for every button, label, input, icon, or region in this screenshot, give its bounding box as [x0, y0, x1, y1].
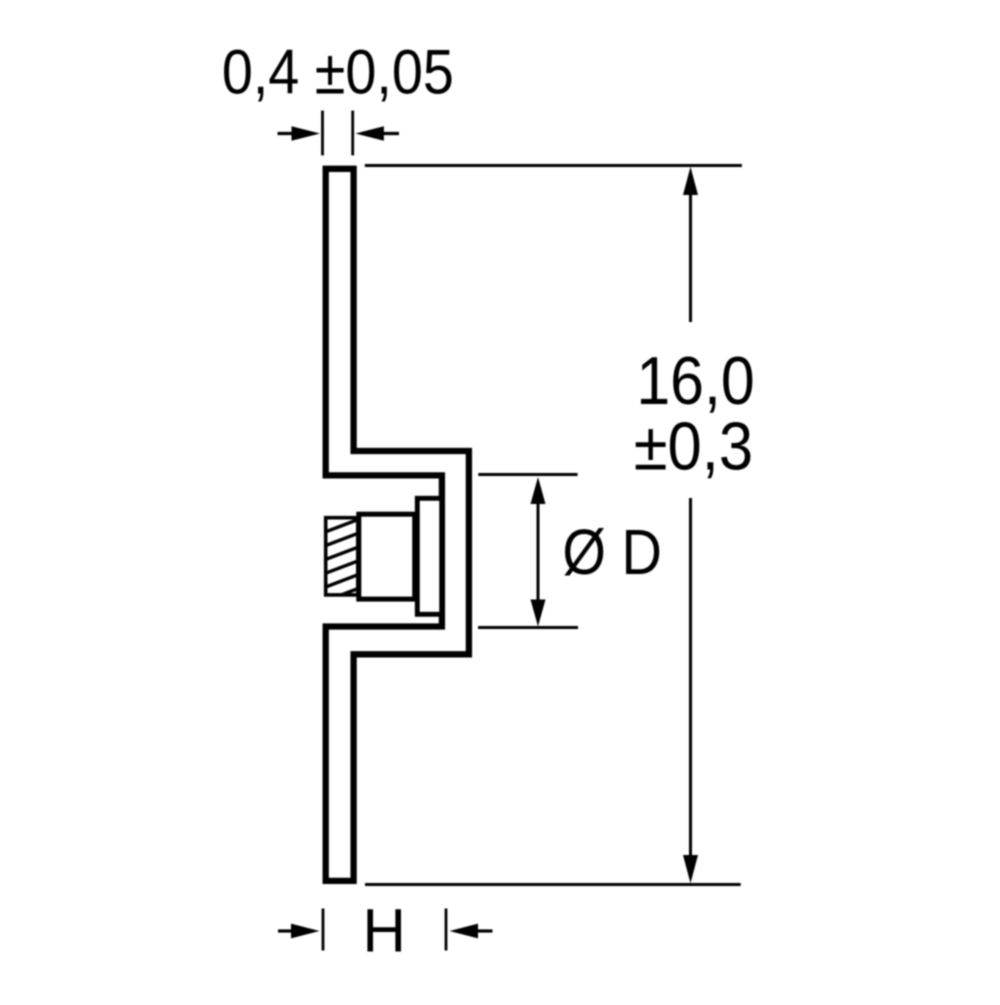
svg-text:H: H — [362, 896, 405, 965]
dimension 16,0 : bottom extension line — [365, 883, 741, 886]
hatch lines — [326, 520, 358, 601]
dimension 16,0 : lower dimension line with down arrow — [689, 498, 692, 872]
pin body — [359, 514, 415, 599]
collar (boss flange) — [417, 498, 441, 614]
dimension 16,0 : top extension line — [365, 164, 742, 167]
hatched head — [326, 518, 358, 595]
dimension 0,4 : right arrow — [382, 132, 399, 135]
dimension 16,0 : upper dimension line with up arrow — [689, 178, 692, 322]
dimension H : right extension line — [445, 909, 448, 951]
svg-text:0,4 ±0,05: 0,4 ±0,05 — [222, 36, 454, 107]
svg-text:Ø D: Ø D — [562, 517, 662, 588]
svg-text:±0,3: ±0,3 — [634, 408, 753, 485]
dimension H : left extension line — [322, 909, 325, 951]
dimension diameter D : lower extension line — [478, 626, 578, 629]
dimension 0,4 +/-0,05 : extension line left — [321, 111, 324, 156]
dimension H : right arrow — [477, 929, 493, 932]
dimension H : left arrow — [278, 929, 293, 932]
dimension 0,4 : left arrow — [278, 132, 295, 135]
dimension diameter D : upper extension line — [478, 473, 577, 476]
dimension 0,4 : extension line right — [351, 111, 354, 156]
dimension diameter D : dimension line with two arrows — [537, 495, 540, 610]
sheet profile outline (Z-shaped cross-section band) — [326, 169, 469, 881]
